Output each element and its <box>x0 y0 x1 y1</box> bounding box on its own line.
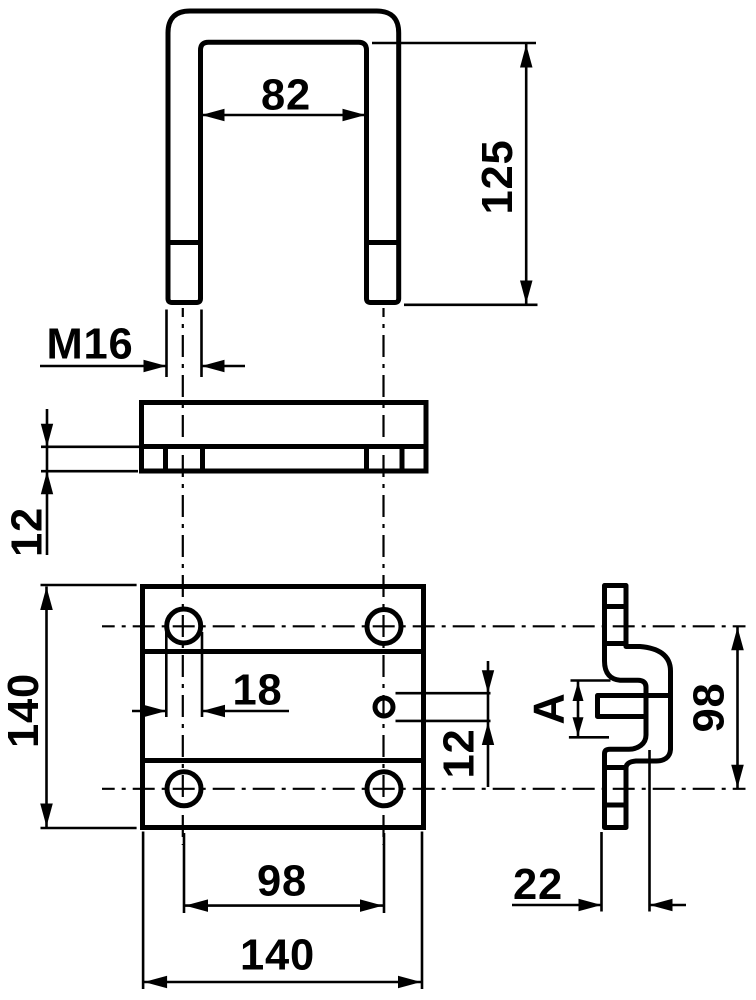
dim 125 bottom extension line <box>404 303 538 306</box>
dim 140 left line <box>45 587 48 828</box>
dim 22 left extension line <box>600 832 603 912</box>
side view bottom hole edge line a <box>605 765 627 770</box>
dim 140 bottom line <box>143 981 422 984</box>
bottom hole row centerline <box>102 788 746 790</box>
svg-text:140: 140 <box>240 931 315 979</box>
side view tab top edge <box>598 693 671 698</box>
side view top hole edge line b <box>605 641 627 646</box>
dim 98 right arrow <box>360 899 383 912</box>
M16 right arrow <box>202 360 225 372</box>
dim 140 bottom left arrow <box>144 976 167 988</box>
dim 18 line right <box>202 710 289 713</box>
small hole dim 12 top ext line <box>396 692 491 695</box>
dim 140 left bottom arrow <box>40 804 53 827</box>
dim A top extension line <box>571 679 611 682</box>
top hole row centerline <box>102 625 746 627</box>
dim A line <box>577 681 580 737</box>
small hole dim 12 line <box>487 661 490 787</box>
dim 18 right extension line <box>201 632 204 717</box>
dim A up arrow <box>573 682 584 701</box>
hole bottom-right <box>367 772 401 806</box>
upper plate outline <box>142 403 427 472</box>
side dim 98 down arrow <box>731 765 744 788</box>
svg-text:M16: M16 <box>46 320 133 368</box>
dimension 82 line <box>203 114 364 117</box>
base plate outline <box>143 587 424 828</box>
hole top-right <box>367 610 401 644</box>
dim 125 top arrow <box>520 45 533 68</box>
dim 22 right arrow <box>650 899 673 911</box>
dim 18 right arrow <box>202 705 225 717</box>
U-bolt left leg thread line <box>168 240 201 245</box>
dim 12 bottom extension line <box>41 470 138 473</box>
svg-text:12: 12 <box>3 507 51 557</box>
dim 140 left top ext line <box>41 584 137 587</box>
upper plate hole edge line d <box>400 447 405 472</box>
svg-text:98: 98 <box>257 857 307 905</box>
side view sheet edge behind tab <box>644 696 649 717</box>
hole top-left <box>167 609 201 643</box>
dim 140 bottom right arrow <box>398 976 421 988</box>
dim 22 line left <box>512 904 602 907</box>
upper plate step line <box>142 444 427 449</box>
svg-text:A: A <box>525 692 573 724</box>
dim 98 left arrow <box>185 899 208 912</box>
left leg centerline <box>182 308 184 845</box>
dim 22 right extension line <box>648 750 651 912</box>
M16 left extension line <box>165 310 168 378</box>
dim 22 left arrow <box>579 899 602 911</box>
side view bottom hole edge line b <box>605 803 627 808</box>
dim 18 left extension line <box>165 632 168 717</box>
small hole dim 12 up arrow <box>482 722 494 745</box>
dimension 125 line <box>525 44 528 304</box>
U-bolt right leg thread line <box>367 240 399 245</box>
dim A down arrow <box>573 717 584 736</box>
dim 12 top extension line <box>41 445 139 448</box>
small hole <box>375 698 393 716</box>
M16 dimension line left <box>40 365 167 368</box>
dim 125 top extension line <box>372 42 536 45</box>
dim 98 line <box>184 904 384 907</box>
svg-text:18: 18 <box>233 666 283 714</box>
dim 22 line right <box>650 904 687 907</box>
dim 125 bottom arrow <box>520 281 533 304</box>
svg-text:98: 98 <box>685 683 733 733</box>
svg-text:140: 140 <box>0 673 48 748</box>
right leg centerline <box>382 308 384 845</box>
upper plate hole edge line a <box>163 447 168 472</box>
svg-text:82: 82 <box>261 71 311 119</box>
base plate lower bend line <box>143 758 424 763</box>
dim 12 down arrow <box>41 424 53 447</box>
upper plate hole edge line c <box>364 447 369 472</box>
dim 12 up arrow <box>41 471 53 494</box>
dim 18 line left <box>132 710 166 713</box>
hole bottom-left <box>167 772 201 806</box>
dimension 82 right arrow <box>343 109 366 121</box>
M16 right extension line <box>200 310 203 378</box>
dim A bottom extension line <box>569 736 609 739</box>
svg-text:12: 12 <box>435 729 483 779</box>
small hole dim 12 down arrow <box>482 670 494 693</box>
svg-text:22: 22 <box>513 861 563 909</box>
side view top hole edge line a <box>605 604 627 609</box>
small hole dim 12 bottom ext line <box>396 720 491 723</box>
side dim 98 up arrow <box>731 627 744 650</box>
M16 left arrow <box>144 360 167 372</box>
dim 12 line <box>46 409 49 555</box>
M16 dimension line right <box>202 365 246 368</box>
side view S1 profile outline <box>598 586 671 828</box>
dim 140 bottom left ext line <box>142 832 145 990</box>
dim 140 bottom right ext line <box>421 832 424 990</box>
dimension 82 left arrow <box>202 109 225 121</box>
base plate upper bend line <box>143 649 424 654</box>
svg-text:125: 125 <box>474 140 522 215</box>
dim 98 right extension line <box>383 833 386 913</box>
dim 140 left bottom ext line <box>41 827 137 830</box>
dim 18 left arrow <box>143 705 166 717</box>
U-bolt B1 outline <box>168 11 399 303</box>
side dim 98 line <box>736 626 739 789</box>
upper plate hole edge line b <box>200 447 205 472</box>
dim 98 left extension line <box>183 833 186 913</box>
dim 140 left top arrow <box>40 587 53 610</box>
